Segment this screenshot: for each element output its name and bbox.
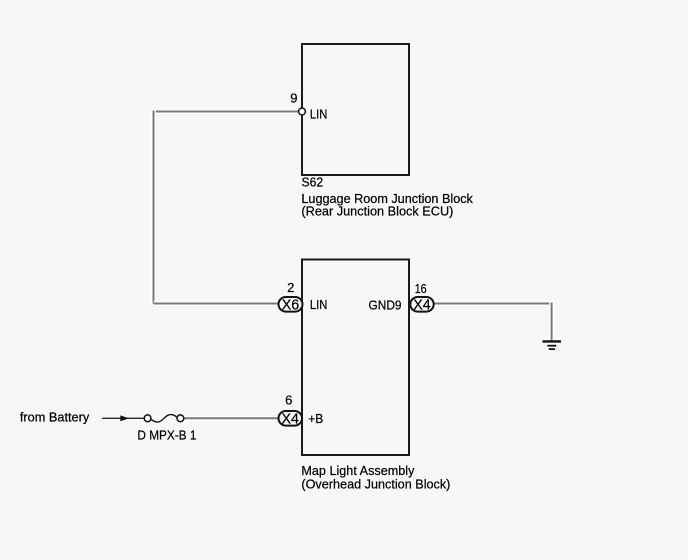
fuse F1 D MPX-B 1 (144, 415, 184, 423)
connector X4 pin 6 stadium (279, 411, 303, 426)
connector X6 pin 2 stadium (279, 297, 303, 312)
svg-text:+B: +B (308, 411, 323, 426)
svg-text:2: 2 (287, 280, 294, 295)
svg-text:LIN: LIN (310, 107, 328, 122)
wire from pin 9 left horizontal (154, 109, 303, 114)
svg-text:GND9: GND9 (369, 297, 402, 312)
pin 9 terminal circle (299, 108, 306, 115)
wire GND9 horizontal (434, 301, 552, 306)
wire into X6 pin 2 (154, 301, 279, 306)
ground G1 symbol (543, 341, 562, 349)
battery feed arrow (102, 415, 144, 421)
wire GND9 vertical to ground (549, 303, 554, 341)
box U1 Luggage Room Junction Block (302, 44, 409, 175)
svg-text:(Overhead Junction Block): (Overhead Junction Block) (301, 476, 450, 491)
svg-text:9: 9 (290, 90, 297, 105)
svg-text:S62: S62 (302, 175, 324, 190)
svg-text:(Rear Junction Block ECU): (Rear Junction Block ECU) (301, 204, 453, 219)
svg-text:X4: X4 (413, 298, 431, 314)
svg-text:LIN: LIN (310, 297, 328, 312)
wire fuse to X4 pin 6 (184, 416, 279, 421)
svg-text:16: 16 (415, 281, 427, 296)
svg-text:D MPX-B 1: D MPX-B 1 (137, 427, 196, 442)
connector X4 pin 16 stadium (410, 297, 433, 312)
box U2 Map Light Assembly (302, 260, 409, 456)
svg-text:X4: X4 (281, 411, 299, 427)
svg-text:X6: X6 (282, 298, 300, 314)
svg-text:6: 6 (285, 393, 292, 408)
wire vertical LIN bus (151, 109, 156, 305)
svg-text:from Battery: from Battery (20, 410, 90, 425)
